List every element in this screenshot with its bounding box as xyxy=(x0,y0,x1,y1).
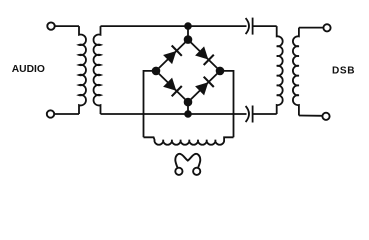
wire junction to ring top xyxy=(187,26,189,39)
inductor L1 (carrier tank coil) xyxy=(144,137,234,144)
transformer T2 secondary winding xyxy=(293,28,299,116)
node ring top vertex xyxy=(185,36,192,43)
capacitor C1 curved plate xyxy=(246,18,249,34)
wire top rail (T1 secondary top to C1) xyxy=(101,25,247,27)
wire ring edge bottom-left xyxy=(156,71,188,102)
wire C1 to T2 primary top xyxy=(253,25,277,27)
terminal J4 (carrier input right) xyxy=(193,168,200,175)
capacitor C2 straight plate xyxy=(252,106,254,123)
wire ring edge top-left xyxy=(156,40,188,71)
wire C2 to T2 primary bottom xyxy=(253,113,277,115)
wire ring edge top-right xyxy=(188,40,220,71)
terminal J3 (carrier input left) xyxy=(175,168,182,175)
diode D1 (left vertex to top vertex) xyxy=(163,46,182,65)
transformer T1 secondary winding xyxy=(94,26,101,114)
transformer T2 primary winding xyxy=(277,26,283,114)
node ring bottom vertex xyxy=(185,99,192,106)
node top-rail junction xyxy=(185,23,191,29)
terminal J2 (audio input bottom) xyxy=(47,110,54,117)
terminal J6 (DSB output bottom) xyxy=(322,113,329,120)
wire ring right vertex down to carrier coil (crosses bottom rail) xyxy=(220,71,234,137)
node ring left vertex xyxy=(153,68,160,75)
capacitor C2 curved plate xyxy=(246,106,249,122)
terminal J5 (DSB output top) xyxy=(323,24,330,31)
terminal J1 (audio input top) xyxy=(47,22,54,29)
node bottom-rail junction xyxy=(185,111,191,117)
diode D4 (bottom vertex to right vertex) xyxy=(195,77,214,96)
node ring right vertex xyxy=(217,68,224,75)
svg-text:AUDIO: AUDIO xyxy=(12,64,45,75)
svg-text:DSB: DSB xyxy=(332,65,355,76)
wire J1 to T1 primary top xyxy=(55,25,79,27)
wire junction to ring bottom xyxy=(187,102,189,114)
wire ring left vertex down to carrier coil xyxy=(144,71,157,137)
transformer T1 primary winding xyxy=(79,26,86,114)
diode D3 (left vertex to bottom vertex) xyxy=(163,78,182,97)
wire J2 to T1 primary bottom xyxy=(54,113,79,115)
wire T2 secondary bottom to J6 xyxy=(299,115,323,117)
wire T2 secondary top to J5 xyxy=(299,27,324,29)
capacitor C1 straight plate xyxy=(252,18,254,35)
diode D2 (top vertex to right vertex) xyxy=(195,46,214,65)
inductor L2 (carrier link coupling coil) xyxy=(175,154,200,168)
wire ring edge bottom-right xyxy=(188,71,220,102)
wire bottom rail (T1 secondary bottom to C2) xyxy=(101,113,247,115)
